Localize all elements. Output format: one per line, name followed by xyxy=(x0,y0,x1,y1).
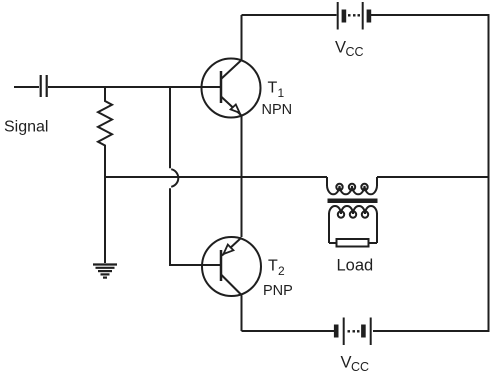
transformer secondary coil xyxy=(329,206,377,214)
svg-text:CC: CC xyxy=(351,360,369,374)
wire top left segment xyxy=(242,14,337,16)
secondary left leg xyxy=(328,213,330,243)
transformer primary drop left xyxy=(326,177,328,186)
wire branch vertical with hop xyxy=(170,87,220,265)
wire T2 collector down xyxy=(241,296,243,332)
T1 emitter diagonal xyxy=(221,97,242,116)
battery B2 bottom xyxy=(336,318,371,346)
svg-text:CC: CC xyxy=(346,45,364,59)
svg-text:V: V xyxy=(335,39,346,57)
svg-text:Load: Load xyxy=(337,257,374,275)
wire right vertical xyxy=(488,14,490,332)
T2 emitter arrow xyxy=(224,245,234,254)
ground xyxy=(93,265,117,278)
wire bottom right segment xyxy=(373,330,490,332)
capacitor C1 (coupling) xyxy=(41,75,47,97)
wire mid horizontal left xyxy=(105,176,327,178)
battery B1 top xyxy=(338,2,369,30)
wire T1 collector up xyxy=(241,15,243,60)
svg-text:NPN: NPN xyxy=(262,102,293,118)
load resistor xyxy=(337,239,369,247)
T1 base bar xyxy=(220,71,223,103)
svg-text:1: 1 xyxy=(278,86,285,100)
transistor Q2 T2 circle xyxy=(202,237,261,296)
T2 collector diagonal xyxy=(221,275,242,296)
secondary bottom wire xyxy=(329,242,377,244)
ground stem wire xyxy=(104,177,106,263)
wire mid horizontal right xyxy=(377,176,489,178)
wire signal input xyxy=(14,86,39,88)
svg-text:T: T xyxy=(268,80,278,97)
wire emitter junction vertical xyxy=(241,116,243,237)
svg-text:2: 2 xyxy=(278,264,285,278)
T2 emitter diagonal xyxy=(222,238,242,256)
wire top right segment xyxy=(371,14,490,16)
transformer primary rise right xyxy=(376,177,378,186)
secondary right leg xyxy=(376,213,378,243)
resistor R1 xyxy=(98,87,112,177)
svg-text:Signal: Signal xyxy=(4,119,48,136)
transformer core xyxy=(328,199,378,204)
svg-text:T: T xyxy=(268,258,278,275)
transformer primary coil xyxy=(327,186,377,194)
wire cap to T1 base xyxy=(48,86,220,88)
T2 base bar xyxy=(220,250,223,281)
T1 emitter arrow xyxy=(231,105,240,113)
transistor Q1 T1 circle xyxy=(202,59,261,118)
svg-text:PNP: PNP xyxy=(263,283,293,299)
svg-text:V: V xyxy=(341,354,352,372)
wire bottom left segment xyxy=(242,330,335,332)
T1 collector diagonal xyxy=(221,60,242,79)
